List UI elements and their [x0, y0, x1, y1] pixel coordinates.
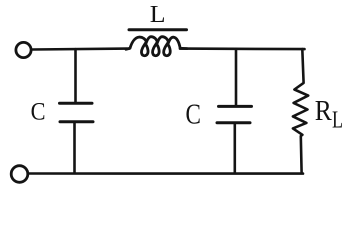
svg-text:C: C	[186, 100, 201, 131]
svg-text:L: L	[332, 108, 343, 134]
svg-text:L: L	[150, 2, 166, 28]
svg-text:C: C	[31, 96, 46, 125]
svg-text:R: R	[315, 95, 333, 127]
